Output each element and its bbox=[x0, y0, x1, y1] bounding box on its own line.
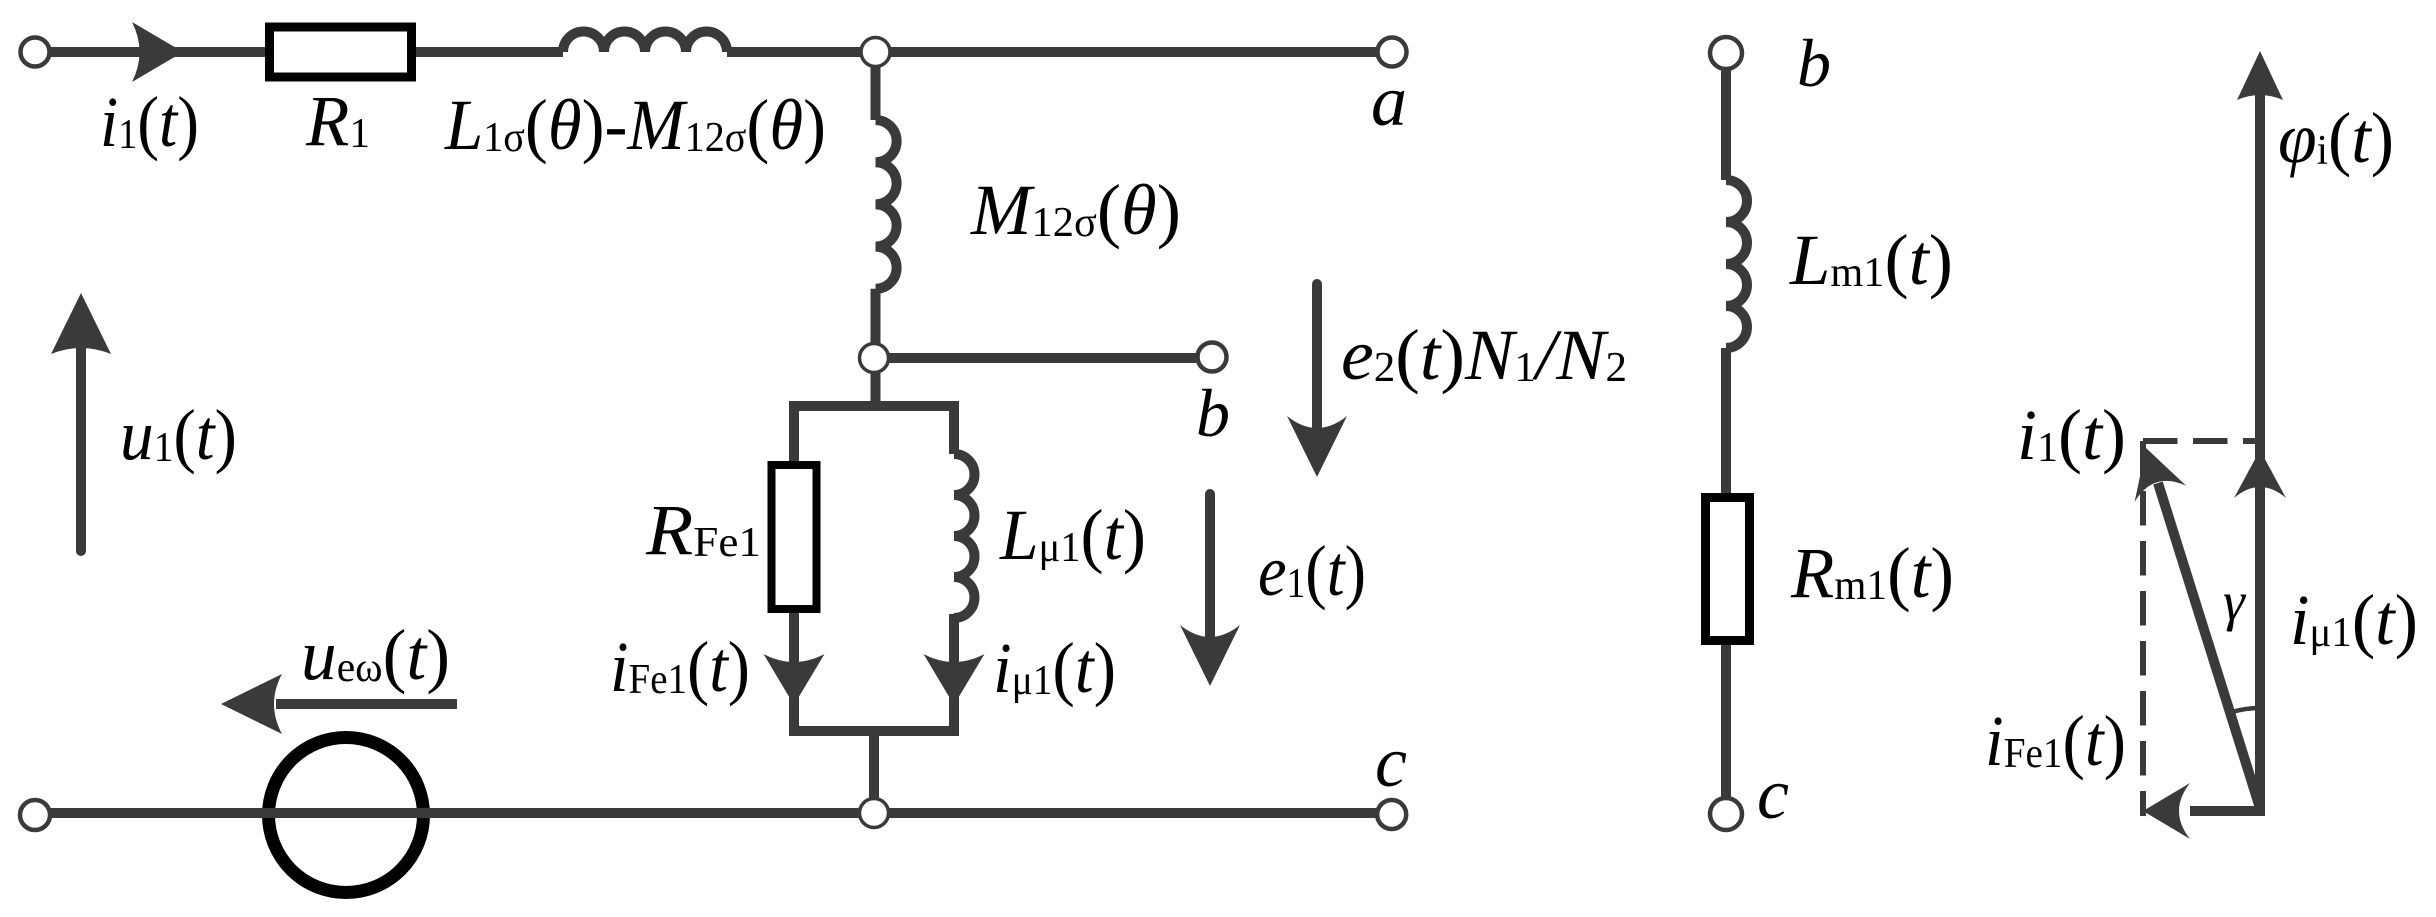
node at b junction bbox=[860, 344, 889, 373]
svg-text:i1(t): i1(t) bbox=[2017, 395, 2126, 475]
svg-text:Lm1(t): Lm1(t) bbox=[1789, 220, 1953, 300]
resistor R1 bbox=[270, 27, 412, 77]
svg-text:RFe1: RFe1 bbox=[645, 490, 761, 570]
resistor RFe1 bbox=[772, 465, 817, 609]
svg-text:a: a bbox=[1371, 61, 1407, 141]
wire top rail coil to terminal a bbox=[727, 47, 1378, 57]
arrow e2(t)N1/N2 bbox=[1312, 284, 1322, 460]
wire top rail left of coil bbox=[51, 47, 563, 57]
arrow i1(t) bbox=[132, 22, 183, 82]
inductor Lm1(t) bbox=[1726, 180, 1747, 348]
wire Lm1 to Rm1 bbox=[1721, 348, 1731, 497]
terminal b bbox=[1198, 343, 1227, 372]
terminal a bbox=[1378, 38, 1407, 67]
svg-text:iμ1(t): iμ1(t) bbox=[993, 628, 1116, 708]
phasor φi(t) axis line bbox=[2255, 95, 2265, 816]
inductor Lμ1(t) bbox=[954, 454, 974, 618]
wire RFe1 branch lower bbox=[789, 609, 799, 736]
angle arc γ bbox=[2231, 708, 2260, 712]
voltage source circle ueω bbox=[269, 738, 424, 893]
node at top of M12σ bbox=[861, 38, 890, 67]
dashed projection vertical bbox=[2140, 441, 2146, 816]
svg-text:u1(t): u1(t) bbox=[120, 395, 237, 475]
inductor L1σ(θ)-M12σ(θ) bbox=[563, 32, 727, 53]
wire M12σ coil to parallel block bbox=[871, 289, 881, 411]
arrow ueω(t) bbox=[276, 699, 457, 709]
terminal input bottom left bbox=[20, 800, 50, 830]
svg-text:iμ1(t): iμ1(t) bbox=[2290, 580, 2418, 660]
arrow iFe1(t) bbox=[764, 654, 825, 705]
wire parallel block bottom bar bbox=[789, 726, 959, 736]
wire block to bottom rail bbox=[869, 731, 879, 813]
wire Lμ1 branch lower bbox=[949, 614, 959, 736]
svg-text:L1σ(θ)-M12σ(θ): L1σ(θ)-M12σ(θ) bbox=[444, 85, 826, 165]
dashed projection horizontal bbox=[2143, 438, 2260, 444]
arrow e1(t) bbox=[1205, 494, 1215, 669]
resistor Rm1(t) bbox=[1706, 498, 1750, 641]
terminal b right circuit bbox=[1710, 37, 1742, 69]
svg-text:M12σ(θ): M12σ(θ) bbox=[970, 170, 1181, 250]
terminal c right circuit bbox=[1710, 798, 1742, 830]
arrow iμ1(t) bbox=[924, 654, 985, 705]
wire Rm1 to terminal c bbox=[1721, 645, 1731, 799]
wire node b to terminal b bbox=[874, 353, 1196, 363]
phasor iFe1(t) arrow bbox=[2190, 806, 2260, 816]
svg-text:e1(t): e1(t) bbox=[1258, 531, 1366, 611]
wire bottom rail bbox=[51, 808, 1378, 818]
terminal c bbox=[1377, 800, 1406, 829]
phasor φi(t) arrowhead bbox=[2237, 51, 2283, 100]
wire right circuit: terminal b to Lm1 bbox=[1721, 68, 1731, 180]
svg-text:iFe1(t): iFe1(t) bbox=[1985, 701, 2126, 781]
svg-text:c: c bbox=[1375, 722, 1407, 802]
terminal input top left bbox=[21, 38, 50, 67]
svg-text:φi(t): φi(t) bbox=[2278, 98, 2394, 178]
svg-text:b: b bbox=[1196, 375, 1230, 451]
svg-text:Lμ1(t): Lμ1(t) bbox=[999, 495, 1146, 575]
svg-text:i1(t): i1(t) bbox=[100, 82, 199, 162]
svg-text:γ: γ bbox=[2223, 571, 2246, 632]
arrow u1(t) bbox=[76, 348, 86, 551]
svg-text:Rm1(t): Rm1(t) bbox=[1790, 533, 1954, 613]
svg-text:c: c bbox=[1757, 754, 1789, 834]
node at bottom rail bbox=[860, 799, 889, 828]
phasor iμ1(t) arrowhead bbox=[2234, 450, 2286, 498]
svg-text:iFe1(t): iFe1(t) bbox=[610, 627, 750, 707]
wire node a to M12σ coil bbox=[871, 52, 881, 120]
svg-text:R1: R1 bbox=[305, 81, 370, 161]
phasor i1(t) arrow bbox=[2158, 483, 2260, 808]
wire parallel block top bar bbox=[794, 406, 954, 466]
svg-text:ueω(t): ueω(t) bbox=[301, 615, 450, 695]
svg-text:e2(t)N1/N2: e2(t)N1/N2 bbox=[1341, 315, 1627, 395]
svg-text:b: b bbox=[1797, 25, 1831, 101]
inductor M12σ(θ) bbox=[876, 120, 897, 289]
